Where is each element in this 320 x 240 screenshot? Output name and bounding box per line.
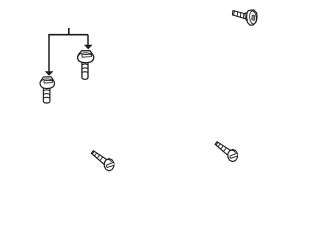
bolt B5 (bottom-right) shank [215,142,231,156]
wire: left leader drop [48,35,50,72]
wire: right leader drop [87,35,89,45]
bolt B4 (bottom-middle) head [104,159,114,171]
bolt B3 shank [232,11,246,19]
bolt B1 (left vertical flange bolt) [40,77,54,103]
bolt B5 (bottom-right) head [228,149,238,161]
bolt B2 (right vertical flange bolt) [78,51,94,80]
arrowhead right [84,45,93,50]
wire: bracket horizontal leader line [48,34,88,36]
bolt B4 (bottom-middle) shank [91,151,107,165]
bolt B3 head [247,10,257,25]
arrowhead left [45,71,54,76]
wire: center tick on bracket [68,28,70,35]
bolt B3 washer [245,13,248,21]
